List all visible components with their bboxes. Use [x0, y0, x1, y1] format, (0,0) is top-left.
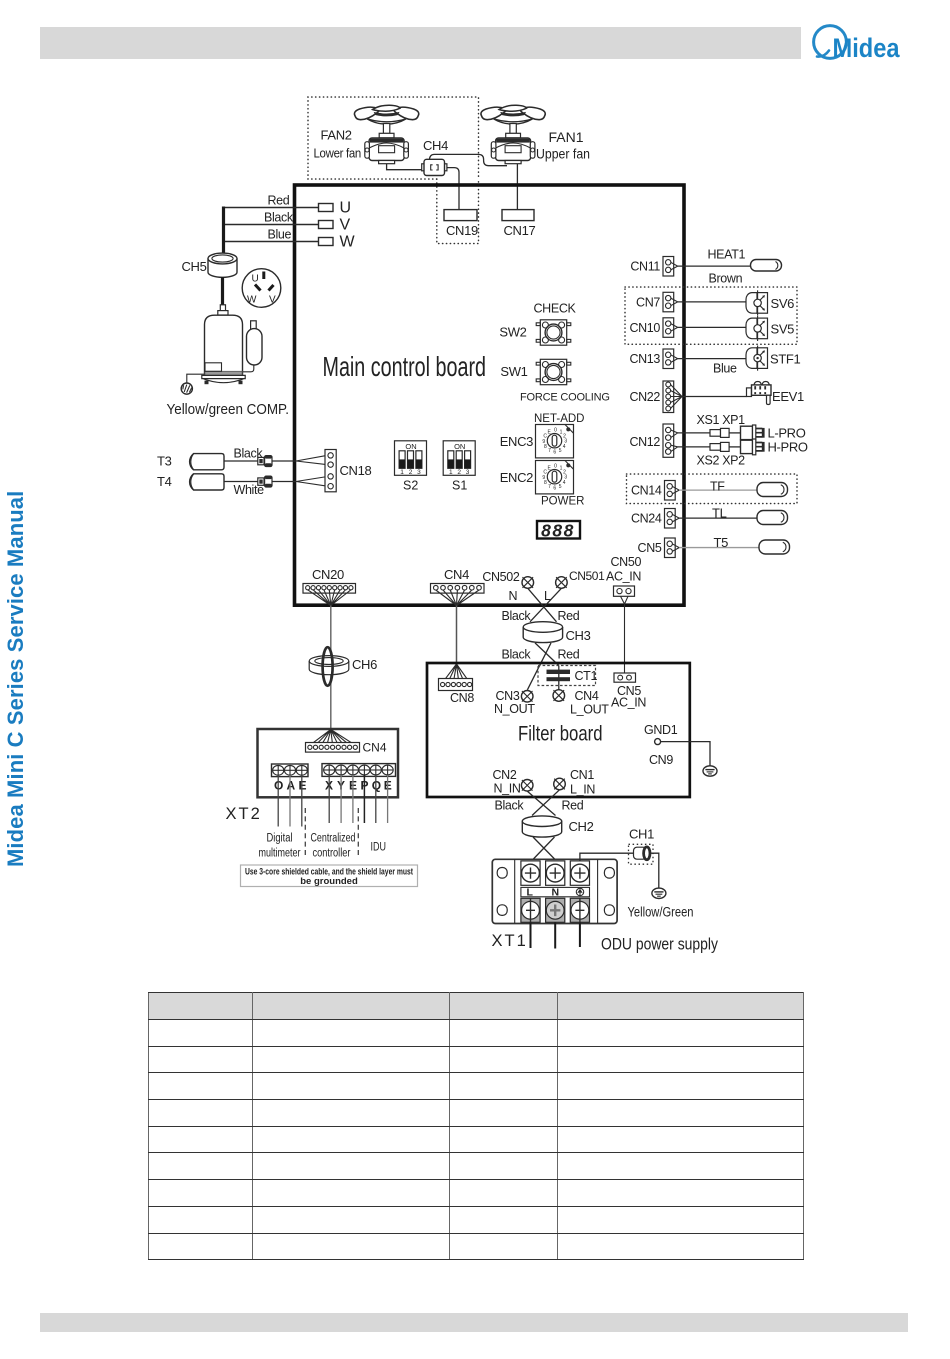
label Red (above CH3)	[558, 609, 580, 623]
label Red (below filter)	[562, 799, 584, 813]
svg-text:V: V	[269, 295, 276, 306]
wire CN14 to TF	[679, 489, 757, 491]
label CN24	[631, 512, 662, 526]
compressor COMP	[202, 305, 262, 384]
label T4	[157, 474, 172, 489]
svg-text:L_IN: L_IN	[570, 783, 595, 797]
svg-text:CN13: CN13	[629, 352, 660, 366]
label ODU power supply	[601, 936, 719, 954]
label N (CN502)	[509, 589, 518, 603]
svg-text:T5: T5	[714, 535, 729, 550]
svg-text:CN501: CN501	[569, 569, 605, 583]
label CN502	[482, 570, 520, 584]
label CN5 (filter)	[617, 684, 641, 698]
connector CN22	[663, 381, 682, 413]
svg-text:XS1 XP1: XS1 XP1	[697, 413, 746, 427]
svg-text:CN17: CN17	[504, 223, 536, 238]
label CN5	[638, 541, 662, 555]
svg-text:N_IN: N_IN	[494, 782, 521, 796]
svg-text:Yellow/green COMP.: Yellow/green COMP.	[167, 401, 290, 418]
dotted outline around CN19	[437, 179, 479, 244]
choke CH6	[309, 647, 349, 686]
DIP switch S1	[443, 441, 475, 476]
wire bundle to CH5	[222, 207, 225, 255]
svg-text:NET-ADD: NET-ADD	[534, 413, 584, 425]
wire CH4 to CN19	[445, 168, 459, 210]
label FAN2	[321, 128, 352, 143]
heater HEAT1	[751, 260, 782, 272]
svg-text:L: L	[527, 887, 534, 899]
svg-text:CHECK: CHECK	[534, 302, 577, 316]
choke CH1	[629, 844, 654, 864]
svg-text:CN20: CN20	[312, 567, 344, 582]
label CN4 (XT2)	[363, 741, 387, 755]
label SV6	[771, 296, 795, 311]
label IDU	[371, 842, 387, 854]
label Black (T3)	[234, 447, 264, 461]
terminal CN1	[554, 778, 566, 790]
svg-text:be grounded: be grounded	[300, 876, 358, 887]
svg-text:FORCE COOLING: FORCE COOLING	[520, 392, 610, 404]
label XS2 XP2	[697, 454, 746, 468]
label CH5	[182, 259, 207, 274]
label XT2	[226, 805, 262, 823]
svg-text:CH5: CH5	[182, 259, 207, 274]
svg-text:CN502: CN502	[482, 570, 520, 584]
svg-text:Brown: Brown	[709, 272, 743, 286]
label GND1	[644, 723, 678, 737]
terminal strip X Y E P Q E	[322, 764, 396, 777]
wire XT1 ground down	[579, 923, 581, 948]
label CN2	[493, 768, 517, 782]
svg-text:multimeter: multimeter	[259, 848, 301, 860]
terminal CN4 (L_OUT)	[553, 690, 565, 702]
DIP switch S2	[395, 441, 427, 476]
label S2	[403, 479, 418, 493]
label POWER	[541, 496, 584, 508]
svg-text:POWER: POWER	[541, 496, 584, 508]
svg-text:CH4: CH4	[423, 138, 448, 153]
connector CN18	[325, 450, 336, 492]
svg-text:CN5: CN5	[638, 541, 662, 555]
svg-text:Red: Red	[268, 194, 290, 208]
wire CN20 to XT2	[330, 606, 332, 730]
svg-text:AC_IN: AC_IN	[611, 696, 646, 710]
label T3	[157, 454, 172, 469]
connector CN12	[663, 424, 678, 457]
svg-text:TF: TF	[710, 480, 725, 494]
connector CN11	[663, 257, 678, 277]
label L (CN501)	[544, 589, 551, 603]
label Yellow/Green	[628, 905, 694, 920]
svg-text:Upper fan: Upper fan	[536, 147, 590, 162]
fan FAN2 (lower)	[354, 105, 418, 164]
label AC_IN (CN50)	[606, 570, 641, 584]
current transformer CT1	[538, 666, 596, 690]
wire CH3 to CN3/CT1	[527, 643, 558, 690]
svg-text:Red: Red	[558, 648, 580, 662]
connector CN24	[665, 509, 680, 529]
svg-text:Main control board: Main control board	[323, 351, 487, 382]
connector CN4 (XT2)	[306, 743, 360, 753]
wire XT1 to CH1	[580, 853, 634, 861]
connector CN13	[663, 349, 678, 369]
svg-text:CN12: CN12	[629, 435, 660, 449]
label Brown	[709, 272, 743, 286]
svg-text:Lower fan: Lower fan	[314, 146, 362, 161]
push switch SW2	[536, 320, 571, 345]
label CN20	[312, 567, 344, 582]
label TL	[712, 506, 727, 521]
label CN1	[570, 768, 594, 782]
label L-PRO	[768, 426, 806, 441]
svg-text:Red: Red	[562, 799, 584, 813]
svg-text:ODU power supply: ODU power supply	[601, 936, 719, 954]
wire red to U	[224, 207, 319, 209]
label CN14	[631, 484, 662, 498]
label N_OUT	[494, 702, 535, 716]
svg-text:SV6: SV6	[771, 296, 795, 311]
svg-text:CH6: CH6	[352, 657, 377, 672]
svg-text:T4: T4	[157, 474, 172, 489]
label Upper fan	[536, 147, 590, 162]
label XT1	[492, 932, 528, 950]
terminal V	[319, 221, 334, 229]
svg-text:CT1: CT1	[575, 669, 598, 683]
label SW2	[499, 325, 526, 340]
label CN13	[629, 352, 660, 366]
svg-text:Blue: Blue	[268, 228, 292, 242]
svg-text:W: W	[340, 234, 356, 251]
svg-text:ENC3: ENC3	[500, 434, 533, 449]
label L_IN	[570, 783, 595, 797]
label CN4 (board)	[444, 567, 469, 582]
svg-text:Q: Q	[372, 779, 381, 793]
svg-text:ENC2: ENC2	[500, 470, 533, 485]
display DS1 (7-segment 888)	[537, 521, 580, 541]
choke CH3	[523, 622, 562, 643]
svg-text:CN24: CN24	[631, 512, 662, 526]
svg-text:A: A	[287, 779, 296, 793]
wire blue to W	[224, 241, 319, 243]
label TF	[710, 480, 725, 494]
main control board outline	[295, 185, 685, 605]
label SW1	[500, 364, 527, 379]
label CT1	[575, 669, 598, 683]
svg-text:L_OUT: L_OUT	[570, 703, 609, 717]
wire CN22 to EEV1	[682, 396, 747, 398]
label CN9	[649, 753, 673, 767]
wire CN10 to SV5	[678, 326, 746, 328]
ground (filter board)	[703, 766, 717, 776]
wire CN11 to HEAT1	[678, 265, 751, 267]
vertical sidebar title	[3, 491, 29, 867]
label Lower fan	[314, 146, 362, 161]
svg-text:controller: controller	[313, 848, 351, 860]
terminal CN2	[521, 780, 533, 792]
svg-text:TL: TL	[712, 506, 727, 521]
svg-text:IDU: IDU	[371, 842, 387, 854]
svg-text:888: 888	[541, 521, 575, 541]
svg-text:XT2: XT2	[226, 805, 262, 823]
svg-text:HEAT1: HEAT1	[708, 248, 746, 262]
label EEV1	[772, 389, 804, 404]
label CN19	[446, 223, 478, 238]
wire CN5 to T5	[679, 547, 759, 549]
label Black (below filter)	[495, 799, 525, 813]
terminal W	[319, 238, 334, 246]
stepper fan motor STF1	[746, 346, 768, 371]
wire CH5 to compressor	[221, 277, 224, 306]
label Red (below CH3)	[558, 648, 580, 662]
label STF1	[770, 352, 801, 367]
label CN18	[340, 463, 372, 478]
label FORCE COOLING	[520, 392, 610, 404]
rotary encoder ENC2	[536, 461, 574, 494]
wire fan into CN8	[443, 664, 470, 682]
terminal block XT1	[492, 859, 617, 923]
svg-text:CN19: CN19	[446, 223, 478, 238]
wire CN24 to TL	[679, 517, 757, 519]
label White	[234, 483, 265, 497]
svg-text:FAN2: FAN2	[321, 128, 352, 143]
empty specification table	[148, 992, 804, 1260]
label CH1	[629, 827, 654, 842]
wire black to V	[224, 224, 319, 226]
terminal U	[319, 204, 334, 212]
svg-text:CN4: CN4	[444, 567, 469, 582]
plug pattern U W V	[242, 269, 281, 308]
svg-text:Filter board: Filter board	[518, 722, 603, 746]
svg-text:CN7: CN7	[636, 296, 660, 310]
svg-text:CN10: CN10	[629, 321, 660, 335]
svg-text:N: N	[509, 589, 518, 603]
choke CH4	[422, 159, 447, 175]
pressure switch H-PRO	[741, 439, 764, 455]
label CN11	[630, 260, 660, 274]
label Blue	[713, 362, 737, 376]
svg-text:E: E	[299, 779, 307, 793]
wire CN502/CN501 to CH3	[528, 588, 562, 622]
inline connector XS1/XP1	[710, 428, 741, 437]
wire CN13 to STF1	[678, 358, 746, 360]
svg-text:U: U	[252, 274, 259, 285]
label ENC2	[500, 470, 533, 485]
svg-text:CN4: CN4	[575, 689, 599, 703]
dashed separator 2	[357, 808, 359, 856]
terminal CN501	[556, 577, 568, 589]
wire fan CN4	[436, 590, 479, 606]
svg-text:CN2: CN2	[493, 768, 517, 782]
ground (yellow/green XT1)	[652, 888, 666, 898]
choke CH2	[522, 816, 561, 837]
svg-text:CH1: CH1	[629, 827, 654, 842]
label CN8	[450, 691, 474, 705]
dashed separator 1	[304, 808, 306, 856]
svg-text:N_OUT: N_OUT	[494, 702, 535, 716]
svg-text:XT1: XT1	[492, 932, 528, 950]
connector CN17	[502, 210, 534, 221]
label H-PRO	[768, 440, 808, 455]
dotted group TF	[627, 474, 798, 504]
svg-text:STF1: STF1	[770, 352, 801, 367]
sensor TL	[757, 511, 788, 525]
wire FAN2 to CH4	[387, 164, 424, 170]
svg-text:Red: Red	[558, 609, 580, 623]
label FAN1	[549, 129, 584, 145]
label CH4	[423, 138, 448, 153]
note box: shielded cable	[241, 865, 418, 887]
label CH2	[569, 819, 594, 834]
wire FAN1 to CH4	[430, 154, 508, 165]
svg-text:T3: T3	[157, 454, 172, 469]
svg-text:Yellow/Green: Yellow/Green	[628, 905, 694, 920]
fan group dotted enclosure	[308, 97, 479, 179]
svg-text:CN50: CN50	[611, 555, 642, 569]
label Filter board	[518, 722, 603, 746]
fan FAN1 (upper)	[481, 105, 545, 164]
push switch SW1	[536, 359, 571, 384]
wires XT2 down (O A E)	[278, 775, 302, 826]
svg-text:Digital: Digital	[267, 833, 293, 845]
wire FAN1 to CN17	[516, 164, 518, 210]
label NET-ADD	[534, 413, 584, 425]
wire CN7 to SV6	[678, 301, 746, 303]
svg-text:CN14: CN14	[631, 484, 662, 498]
label ENC3	[500, 434, 533, 449]
svg-text:CH3: CH3	[566, 628, 591, 643]
terminal CN3	[521, 691, 533, 703]
connector CN5	[665, 538, 680, 558]
svg-text:L-PRO: L-PRO	[768, 426, 806, 441]
svg-text:CN9: CN9	[649, 753, 673, 767]
svg-text:Blue: Blue	[713, 362, 737, 376]
svg-text:SV5: SV5	[771, 322, 795, 337]
connector CN5 AC_IN (filter)	[614, 673, 636, 682]
label CN12	[629, 435, 660, 449]
terminal block XT2	[258, 729, 399, 797]
label U	[340, 200, 352, 217]
label AC_IN (filter)	[611, 696, 646, 710]
svg-text:U: U	[340, 200, 352, 217]
svg-text:W: W	[247, 295, 257, 306]
svg-text:CN18: CN18	[340, 463, 372, 478]
label CN50	[611, 555, 642, 569]
label N_IN	[494, 782, 521, 796]
label Centralized controller	[311, 833, 356, 860]
wire CN4 to CN8	[456, 606, 458, 665]
svg-text:CN8: CN8	[450, 691, 474, 705]
svg-text:H-PRO: H-PRO	[768, 440, 808, 455]
label CN10	[629, 321, 660, 335]
Midea logo	[806, 20, 910, 68]
connector CN14	[665, 481, 680, 501]
labels X Y E P Q E	[325, 779, 392, 793]
wire GND1 to ground	[661, 742, 710, 766]
wire T3 to CN18	[224, 455, 328, 466]
connector CN50	[614, 586, 635, 596]
label Digital multimeter	[259, 833, 301, 860]
label XS1 XP1	[697, 413, 746, 427]
wire CH1 to ground	[649, 853, 659, 888]
label Main control board	[323, 351, 487, 382]
connector CN4	[431, 584, 485, 594]
svg-text:SW2: SW2	[499, 325, 526, 340]
label Black (above CH3)	[502, 609, 532, 623]
connector CN19	[444, 210, 477, 221]
label W	[340, 234, 356, 251]
label CN501	[569, 569, 605, 583]
dotted group SV6/SV5	[625, 287, 797, 344]
svg-text:V: V	[340, 217, 351, 234]
label CN22	[629, 390, 660, 404]
svg-text:CH2: CH2	[569, 819, 594, 834]
label Black (below CH3)	[502, 648, 532, 662]
label CN4 (L_OUT)	[575, 689, 599, 703]
connector CN8	[439, 679, 473, 691]
rotary encoder ENC3	[536, 425, 574, 458]
label CHECK	[534, 302, 577, 316]
choke CH5	[208, 253, 237, 277]
sensor TF	[757, 483, 788, 497]
svg-text:Centralized: Centralized	[311, 833, 356, 845]
wire XT1 L down	[530, 923, 532, 949]
solenoid valve SV6	[746, 290, 768, 315]
wire CH2 to XT1	[531, 837, 557, 862]
label CH3	[566, 628, 591, 643]
connector CN20	[303, 584, 356, 594]
label Black	[264, 211, 294, 225]
label S1	[452, 479, 467, 493]
solenoid valve SV5	[746, 316, 768, 341]
svg-text:CN3: CN3	[496, 689, 520, 703]
svg-text:N: N	[552, 887, 560, 899]
label Yellow/green COMP.	[167, 401, 290, 418]
pressure switch L-PRO	[741, 425, 764, 441]
terminal CN502	[522, 577, 534, 589]
svg-text:GND1: GND1	[644, 723, 678, 737]
label CN7	[636, 296, 660, 310]
wire CN12 to XS1	[678, 432, 710, 434]
svg-text:S2: S2	[403, 479, 418, 493]
filter board outline	[427, 663, 690, 797]
wires XT2 down (X Y E P Q E)	[329, 775, 387, 823]
wire XT1 N down	[554, 923, 556, 949]
label T5	[714, 535, 729, 550]
svg-text:EEV1: EEV1	[772, 389, 804, 404]
wire fan CN20	[308, 590, 351, 606]
inline connector XS2/XP2	[710, 442, 741, 451]
terminal strip O A E	[272, 764, 309, 777]
label CH6	[352, 657, 377, 672]
wire CN12 to XS2	[678, 446, 710, 448]
svg-text:Black: Black	[502, 648, 532, 662]
wire fan into XT2 CN4	[310, 730, 355, 746]
label CN17	[504, 223, 536, 238]
label Red	[268, 194, 290, 208]
label L_OUT	[570, 703, 609, 717]
wire T4 to CN18	[224, 476, 328, 487]
svg-text:S1: S1	[452, 479, 467, 493]
svg-text:Black: Black	[264, 211, 294, 225]
svg-text:AC_IN: AC_IN	[606, 570, 641, 584]
sensor T5	[759, 540, 790, 554]
label HEAT1	[708, 248, 746, 262]
sensor T3	[190, 454, 224, 470]
wire CN50 to CN5 AC_IN	[621, 596, 629, 673]
svg-text:FAN1: FAN1	[549, 129, 584, 145]
label V	[340, 217, 351, 234]
